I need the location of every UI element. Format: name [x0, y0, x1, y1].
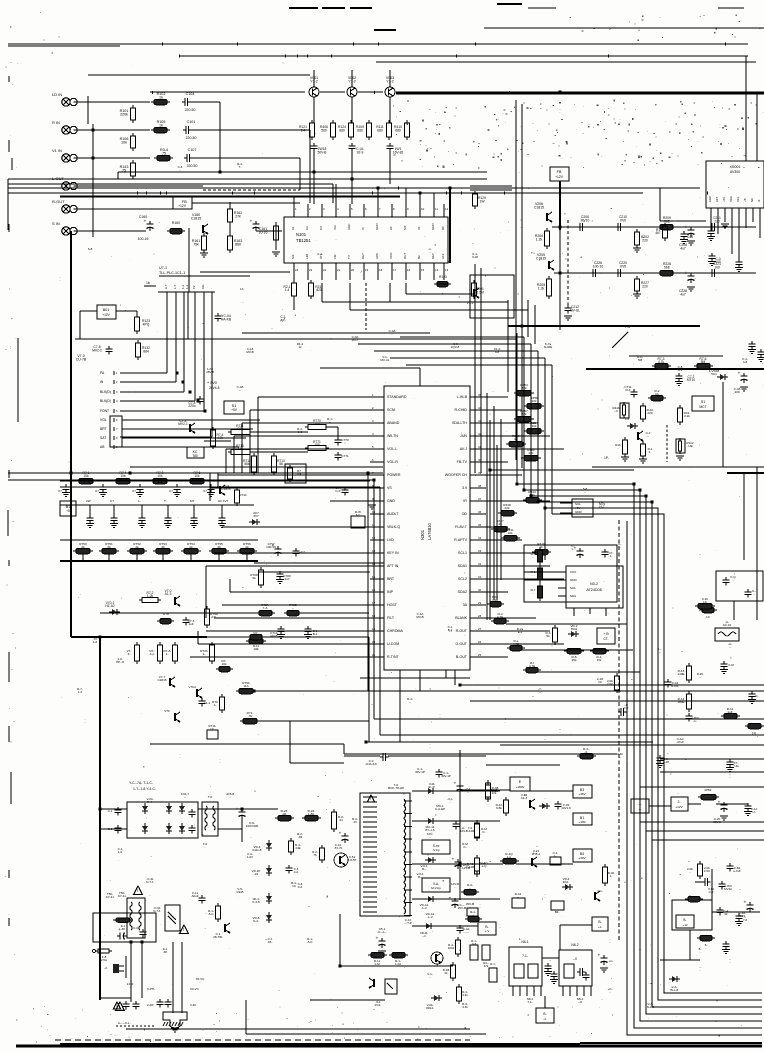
svg-text:-3-: -3- — [584, 750, 588, 754]
svg-text:--: -- — [409, 700, 411, 704]
transistor V31x — [595, 889, 603, 901]
wire ic bottom — [360, 670, 470, 742]
wire bundleB — [524, 490, 762, 1021]
svg-text:+: + — [118, 928, 121, 933]
svg-text:1-: 1- — [166, 652, 169, 656]
svg-text:-: - — [480, 905, 481, 909]
svg-text:2k: 2k — [514, 437, 518, 441]
svg-text:MV10: MV10 — [724, 887, 732, 891]
svg-text:6.8k: 6.8k — [496, 806, 502, 810]
capacitor matrix — [132, 484, 144, 497]
svg-text:44: 44 — [353, 820, 357, 824]
svg-text:-4-: -4- — [543, 1017, 547, 1021]
svg-text:4.3k: 4.3k — [462, 1005, 468, 1009]
capacitor row2 — [86, 499, 94, 528]
svg-text:29: 29 — [478, 601, 482, 605]
diode VD941 — [425, 782, 436, 794]
svg-text:BRT: BRT — [100, 427, 107, 431]
wire mid bus thick — [60, 195, 400, 197]
resistor R72A — [256, 603, 275, 616]
svg-text:220: 220 — [714, 219, 720, 223]
svg-text:220: 220 — [642, 284, 648, 288]
svg-text:-3K: -3K — [121, 927, 126, 931]
svg-text:18: 18 — [379, 268, 383, 272]
diode VD606 — [179, 823, 185, 834]
svg-text:FB: FB — [557, 170, 562, 174]
box bridge — [127, 802, 198, 838]
resistor R7-1 — [76, 471, 96, 484]
svg-text:+12V: +12V — [675, 805, 683, 809]
wire tuner link — [660, 188, 706, 221]
bottom faint line — [55, 1039, 470, 1041]
svg-text:--0: --0 — [573, 957, 577, 961]
resistor R109 — [356, 120, 371, 140]
resistor R1Q — [486, 782, 499, 802]
svg-text:SCM: SCM — [387, 408, 395, 412]
svg-text:140E: 140E — [677, 672, 684, 676]
svg-text:1-86: 1-86 — [308, 812, 314, 816]
svg-text:BLK(D): BLK(D) — [100, 390, 111, 394]
wire psu top — [150, 744, 486, 754]
svg-text:1-0: 1-0 — [298, 430, 303, 434]
svg-text:4V7: 4V7 — [253, 514, 259, 518]
svg-text:C-: C- — [482, 830, 485, 834]
box BCT — [597, 628, 615, 644]
wire row3 out — [192, 158, 300, 190]
svg-text:220: 220 — [642, 238, 648, 242]
svg-text:MV-UL: MV-UL — [570, 308, 580, 312]
svg-text:HZ-A2: HZ-A2 — [105, 604, 115, 608]
resistor R73 — [652, 357, 671, 369]
svg-text:FM: FM — [333, 254, 337, 259]
capacitor C107 — [184, 148, 197, 168]
box B4b — [551, 901, 564, 914]
capacitor Ce1 — [571, 544, 583, 558]
svg-text:N8-2: N8-2 — [571, 943, 578, 947]
resistor R517 b — [531, 565, 543, 583]
wire cpu w4 — [120, 292, 195, 401]
wire feed y365 — [406, 365, 552, 514]
svg-text:CT-: CT- — [603, 637, 608, 641]
svg-text:-: - — [205, 845, 206, 849]
svg-text:B-1: B-1 — [313, 632, 318, 636]
text scan smudges — [60, 107, 748, 972]
svg-text:N-7-1: N-7-1 — [153, 909, 161, 913]
wire bus ticks — [137, 43, 726, 195]
resistor R160 — [167, 221, 185, 234]
svg-text:1W: 1W — [597, 658, 602, 662]
capacitor C160 — [138, 215, 154, 241]
capacitor Cn1 — [544, 963, 558, 984]
resistor R314 — [677, 691, 691, 712]
svg-text:1uF: 1uF — [188, 622, 193, 626]
wire bus735 — [380, 734, 764, 736]
capacitor C610 — [334, 832, 349, 851]
diode VD34 — [562, 877, 573, 890]
svg-text:+: + — [250, 220, 253, 225]
wire mains — [100, 942, 182, 1013]
svg-text:+: + — [718, 801, 721, 806]
resistor R354 — [514, 383, 534, 396]
text dashed label — [116, 1021, 155, 1026]
svg-text:E-2: E-2 — [518, 630, 523, 634]
svg-text:4k7: 4k7 — [655, 231, 660, 235]
svg-text:1-Q: 1-Q — [482, 864, 488, 868]
dust lower — [78, 561, 474, 758]
svg-text:-: - — [610, 990, 611, 994]
svg-text:4-8: 4-8 — [495, 350, 500, 354]
svg-text:H-7: H-7 — [599, 505, 604, 509]
capacitor tuner C4 — [708, 253, 721, 266]
capacitor Cx2 — [157, 999, 172, 1008]
svg-text:1-4: 1-4 — [285, 288, 290, 292]
box FB1 +12V — [173, 197, 192, 209]
svg-text:10k: 10k — [83, 474, 89, 478]
svg-text:-: - — [209, 288, 213, 289]
svg-text:U-: U- — [752, 810, 755, 814]
resistor R711 — [228, 424, 253, 435]
svg-text:1-: 1- — [138, 499, 141, 503]
svg-text:-: - — [533, 573, 534, 577]
cpu pin labels — [100, 371, 118, 449]
capacitor C704 — [188, 396, 203, 408]
svg-text:16k: 16k — [222, 662, 227, 666]
svg-text:680: 680 — [339, 128, 345, 132]
capacitor C51b — [376, 937, 387, 956]
svg-text:R160: R160 — [172, 221, 180, 225]
svg-text:HA-KB: HA-KB — [221, 317, 232, 321]
box xray — [716, 571, 763, 601]
svg-text:AGC: AGC — [347, 223, 351, 230]
svg-text:+12V: +12V — [102, 313, 110, 317]
resistor R358 — [524, 421, 544, 434]
text VT labels — [76, 354, 87, 361]
svg-text:-L-2: -L-2 — [427, 915, 433, 919]
svg-text:V7bd: V7bd — [188, 685, 196, 689]
svg-text:-: - — [757, 697, 758, 701]
resistor R123 — [116, 311, 150, 334]
transistor V704 — [178, 419, 195, 433]
svg-text:--0: --0 — [578, 1000, 582, 1004]
svg-text:-: - — [640, 570, 641, 574]
resistor R754 — [181, 542, 201, 561]
resistor R1b — [615, 437, 629, 461]
svg-text:A-T: A-T — [164, 284, 168, 289]
dust mid — [120, 302, 763, 468]
svg-text:36: 36 — [478, 510, 482, 514]
wire n101 bot r2 — [350, 283, 528, 310]
capacitor matrix — [58, 484, 70, 497]
svg-text:C-7: C-7 — [624, 706, 629, 710]
svg-text:SDA1: SDA1 — [458, 564, 467, 568]
capacitor C941 — [454, 782, 472, 795]
svg-text:V-4b: V-4b — [190, 1003, 196, 1007]
transistor V302 — [521, 793, 535, 809]
resistor R227 — [633, 276, 649, 298]
svg-text:92-9: 92-9 — [357, 150, 364, 154]
bottom dust band2 — [498, 976, 742, 1037]
diode VD52 — [252, 865, 272, 876]
wire b8 — [544, 996, 546, 1008]
svg-text:T-C: T-C — [356, 513, 362, 517]
resistor R313 — [677, 663, 691, 683]
svg-text:--: -- — [647, 434, 649, 438]
svg-text:OD: OD — [462, 512, 468, 516]
resistor Rv — [546, 625, 558, 645]
capacitor Cn6 — [722, 941, 730, 954]
svg-text:S1: S1 — [701, 400, 706, 404]
svg-text:LIM: LIM — [305, 254, 309, 259]
svg-text:-: - — [220, 760, 221, 764]
wire bus y473 — [8, 470, 634, 473]
capacitor matrix — [169, 484, 181, 497]
resistor R162 — [228, 206, 243, 225]
svg-text:180E: 180E — [677, 700, 684, 704]
transistor V7q — [638, 431, 651, 441]
svg-text:50V-B: 50V-B — [317, 150, 327, 154]
box B1x — [592, 917, 608, 931]
svg-text:+12: +12 — [682, 923, 687, 927]
resistor R525 — [332, 809, 345, 832]
svg-text:10k: 10k — [194, 474, 200, 478]
svg-text:--: -- — [469, 886, 471, 890]
svg-text:1-M: 1-M — [374, 962, 380, 966]
svg-text:-: - — [560, 110, 561, 114]
svg-text:+: + — [685, 272, 688, 277]
svg-text:220-50: 220-50 — [185, 108, 196, 112]
svg-text:STANDARD: STANDARD — [387, 395, 407, 399]
svg-text:AB: AB — [100, 445, 105, 449]
wire audio row2 — [554, 272, 756, 274]
svg-text:-: - — [85, 720, 86, 724]
capacitor C210 — [615, 215, 627, 231]
svg-text:--: -- — [729, 645, 731, 649]
transformer T601 — [202, 795, 218, 836]
svg-text:-: - — [690, 870, 691, 874]
resistor R750 — [73, 542, 93, 561]
wire bus701 — [470, 700, 764, 702]
text psu line1 — [129, 781, 156, 791]
svg-text:+5: +5 — [66, 509, 70, 513]
capacitor C608 — [189, 809, 196, 834]
svg-text:1W: 1W — [480, 199, 486, 203]
svg-text:+: + — [236, 808, 239, 813]
svg-text:AUDLT: AUDLT — [387, 512, 399, 516]
resistor R524 — [302, 809, 321, 821]
svg-text:--1: --1 — [422, 934, 426, 938]
svg-text:1-4: 1-4 — [78, 690, 83, 694]
svg-text:37: 37 — [478, 497, 482, 501]
svg-text:1-T: 1-T — [173, 284, 177, 289]
svg-text:C-: C- — [463, 845, 466, 849]
svg-text:5k: 5k — [546, 634, 550, 638]
svg-text:!: ! — [183, 927, 184, 932]
capacitor Ck1 — [720, 661, 734, 674]
plug XP1 — [104, 956, 126, 978]
svg-text:-01: -01 — [254, 872, 259, 876]
svg-text:35: 35 — [478, 523, 482, 527]
text MC1 — [435, 804, 445, 811]
wire row6 — [80, 230, 146, 232]
wire psu left — [99, 637, 101, 1000]
capacitor C611 — [286, 865, 299, 874]
svg-text:4k: 4k — [498, 522, 502, 526]
svg-text:a-7uF: a-7uF — [733, 869, 741, 873]
svg-text:BLANK: BLANK — [455, 616, 467, 620]
svg-text:N8-1: N8-1 — [521, 940, 528, 944]
wire fly top — [344, 755, 486, 757]
svg-text:-: - — [345, 440, 346, 444]
svg-text:+-V: +-V — [485, 929, 490, 933]
box B+5 — [60, 501, 76, 516]
svg-text:4-: 4- — [128, 652, 131, 656]
wire cpu header — [158, 284, 244, 292]
resistor R753 — [153, 542, 173, 561]
svg-text:VBLK-Q: VBLK-Q — [387, 525, 400, 529]
resistor R91B — [443, 962, 456, 981]
wire sda bus — [487, 393, 545, 620]
wire row1 out — [190, 102, 220, 172]
capacitor CB2 — [349, 143, 365, 179]
svg-text:K7-41: K7-41 — [106, 895, 114, 899]
svg-text:28V-8: 28V-8 — [206, 370, 214, 374]
svg-text:+: + — [144, 220, 147, 225]
resistor RA2 — [461, 883, 479, 895]
svg-text:C3: C3 — [319, 226, 323, 230]
resistor R356 — [524, 396, 544, 409]
wire rgb bus1 — [60, 539, 258, 541]
capacitor C602 — [108, 825, 122, 834]
svg-text:4.7E: 4.7E — [497, 615, 503, 619]
svg-text:1P-: 1P- — [604, 456, 609, 460]
connector X104 L-OUT — [52, 176, 80, 190]
svg-text:LD IN: LD IN — [52, 92, 62, 97]
zener V7z — [625, 417, 638, 429]
svg-text:-C4b-4-F: -C4b-4-F — [365, 762, 377, 766]
transistor V601 — [334, 853, 357, 867]
wire vcol5 — [534, 305, 536, 344]
wire row2 — [80, 129, 150, 131]
svg-text:100: 100 — [714, 265, 720, 269]
svg-text:FLAV-T: FLAV-T — [455, 525, 468, 529]
resistor R7c — [246, 631, 266, 644]
resistor R711b — [247, 634, 265, 651]
text +5V node — [207, 381, 220, 390]
svg-text:-: - — [180, 755, 181, 759]
capacitor C612 — [191, 891, 205, 904]
svg-text:BRT: BRT — [387, 577, 395, 581]
svg-text:IN-L-8: IN-L-8 — [670, 988, 679, 992]
switch K501 — [113, 918, 133, 931]
wire thick video bus — [150, 92, 764, 93]
svg-text:820: 820 — [316, 288, 322, 292]
svg-text:1-4: 1-4 — [301, 128, 306, 132]
capacitor C717 — [199, 698, 211, 707]
svg-text:MV10: MV10 — [581, 218, 590, 222]
diode VD601 — [142, 803, 148, 814]
box B01 +12V — [97, 305, 116, 319]
text b5 — [291, 881, 297, 888]
wire psu ac — [100, 809, 242, 829]
svg-text:-: - — [618, 446, 619, 450]
capacitor tuner C3 — [680, 231, 693, 244]
page dust top-left — [5, 12, 59, 68]
resistor R101 — [120, 105, 136, 123]
svg-text:C7: C7 — [58, 489, 62, 493]
svg-text:2-: 2- — [677, 800, 680, 804]
resistor R7b4 — [577, 747, 596, 759]
op-amp N302 AT24C08 — [558, 566, 623, 616]
svg-text:-06: -06 — [298, 835, 303, 839]
wire k lines — [734, 467, 757, 620]
box opto2 — [375, 979, 397, 1007]
wire top bus 1 — [8, 44, 748, 46]
svg-text:D41-: D41- — [563, 880, 569, 884]
capacitor CB3 — [387, 143, 404, 184]
diode VDA1 — [420, 896, 436, 910]
text T90 — [388, 783, 405, 790]
wire g6 — [366, 637, 653, 742]
left margin marks — [5, 76, 18, 955]
svg-text:47k: 47k — [484, 964, 489, 968]
capacitor C912 — [436, 769, 451, 778]
svg-text:1-: 1- — [203, 652, 206, 656]
wire g7 — [100, 612, 369, 614]
svg-text:NC: NC — [750, 198, 754, 202]
svg-text:A-p: A-p — [150, 652, 155, 656]
text 1P — [604, 456, 609, 460]
svg-text:-: - — [600, 892, 601, 896]
svg-text:4.7E: 4.7E — [529, 664, 535, 668]
box Bq — [467, 908, 478, 916]
svg-text:R-OUT: R-OUT — [52, 199, 65, 204]
svg-text:V1 IN: V1 IN — [52, 148, 62, 153]
capacitor C104 — [182, 92, 195, 112]
svg-text:-: - — [340, 930, 341, 934]
resistor R771 — [305, 440, 329, 451]
wire mid bus 2 — [8, 178, 487, 180]
wire y339 — [75, 338, 516, 340]
capacitor C211 — [709, 216, 721, 231]
svg-text:MV-B: MV-B — [416, 615, 423, 619]
svg-text:Vi: Vi — [361, 227, 365, 230]
svg-text:--: -- — [619, 545, 621, 549]
capacitor tuner C1 — [707, 228, 715, 241]
diode VDR — [420, 923, 434, 938]
svg-text:MCT: MCT — [699, 405, 706, 409]
wire n101 bot r3 — [406, 283, 475, 294]
svg-text:1-: 1- — [610, 874, 613, 878]
svg-text:-57-70: -57-70 — [334, 846, 343, 850]
svg-text:IN41: IN41 — [571, 627, 578, 631]
capacitor Cx1 — [123, 1001, 140, 1010]
svg-text:100-10: 100-10 — [593, 264, 604, 268]
capacitor C942 — [453, 821, 467, 833]
resistor R512 — [389, 952, 408, 966]
svg-text:VOL-L: VOL-L — [387, 447, 397, 451]
svg-text:C1815: C1815 — [157, 678, 166, 682]
svg-text:1-0V: 1-0V — [247, 855, 253, 859]
svg-text:16V-82: 16V-82 — [393, 150, 404, 154]
svg-text:+180: +180 — [579, 820, 586, 824]
wire mid stubs — [118, 172, 450, 263]
wire aft line1 — [612, 324, 723, 467]
capacitor C72 — [675, 373, 695, 386]
wire dash vert x619 — [618, 520, 620, 940]
wire junction dots — [70, 91, 702, 968]
resistor R31b2 — [496, 797, 509, 816]
svg-text:27: 27 — [478, 627, 482, 631]
